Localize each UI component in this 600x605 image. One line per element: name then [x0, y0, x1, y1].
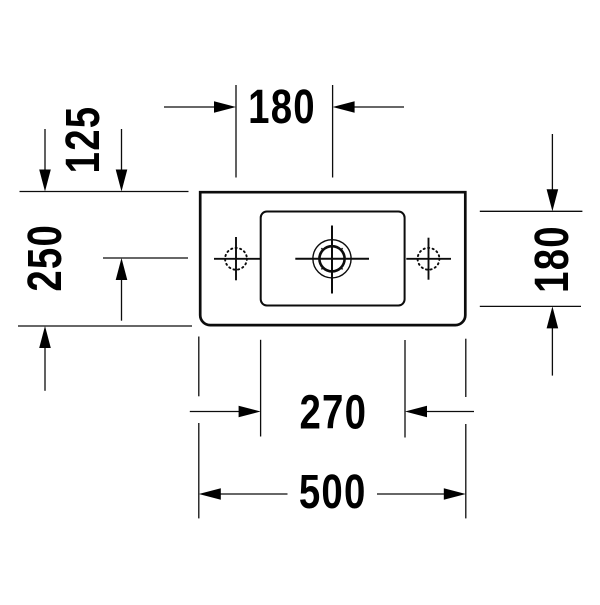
dim 250: top arrow (down to line A) — [44, 129, 46, 171]
bottom dim 500: right extension line (two segments, gap at 270 line) — [465, 339, 467, 397]
bottom dim 500: left arrow — [219, 493, 288, 495]
bottom dim 270: right extension line — [404, 340, 406, 438]
left side: hole centerline extension line B — [103, 257, 188, 259]
right dim 180: top arrow — [551, 134, 553, 191]
bottom dim 500: left extension line (two segments, gap at 270 line) — [198, 337, 200, 397]
svg-text:270: 270 — [299, 387, 367, 440]
left hole crosshair horizontal — [214, 258, 261, 260]
bottom dim 270: left extension line — [260, 340, 262, 437]
bottom dim 500: right arrow — [377, 493, 446, 495]
dim 125: top arrow (down to line A) — [121, 129, 123, 171]
left hole crosshair vertical — [235, 237, 237, 280]
right dim 180: bottom extension line — [480, 305, 581, 307]
svg-text:180: 180 — [526, 225, 579, 293]
faucet inner circle tick nubs (diagonals) — [321, 248, 342, 269]
top dim 180: left extension line — [235, 85, 237, 178]
faucet crosshair vertical — [331, 226, 333, 294]
dim 125: bottom arrow (up to line B) — [121, 280, 123, 321]
faucet hole outer circle — [313, 240, 351, 278]
left punched hole dashed circle — [225, 248, 247, 270]
top dim 180: right extension line — [332, 85, 334, 178]
dim 250: bottom arrow (up to line C) — [44, 348, 46, 391]
left side: basin bottom extension line C — [18, 325, 192, 327]
top dim 180: right arrow — [352, 106, 404, 108]
bottom dim 270: right arrow — [425, 411, 474, 413]
inner bowl rounded rect — [261, 212, 405, 306]
right hole crosshair vertical — [428, 238, 430, 280]
svg-text:500: 500 — [299, 466, 367, 519]
faucet crosshair horizontal — [295, 258, 369, 260]
svg-text:250: 250 — [19, 224, 72, 292]
left side: basin top extension line A — [20, 191, 189, 193]
svg-text:180: 180 — [248, 81, 316, 134]
top dim 180: left arrow — [164, 106, 216, 108]
right punched hole dashed circle — [418, 248, 440, 270]
svg-text:125: 125 — [57, 106, 110, 174]
right dim 180: top extension line — [480, 210, 583, 212]
bottom dim 270: left arrow — [190, 411, 240, 413]
right hole crosshair horizontal — [406, 258, 451, 260]
basin outer outline — [200, 192, 465, 325]
faucet hole inner circle — [319, 246, 344, 271]
right dim 180: bottom arrow — [551, 328, 553, 376]
